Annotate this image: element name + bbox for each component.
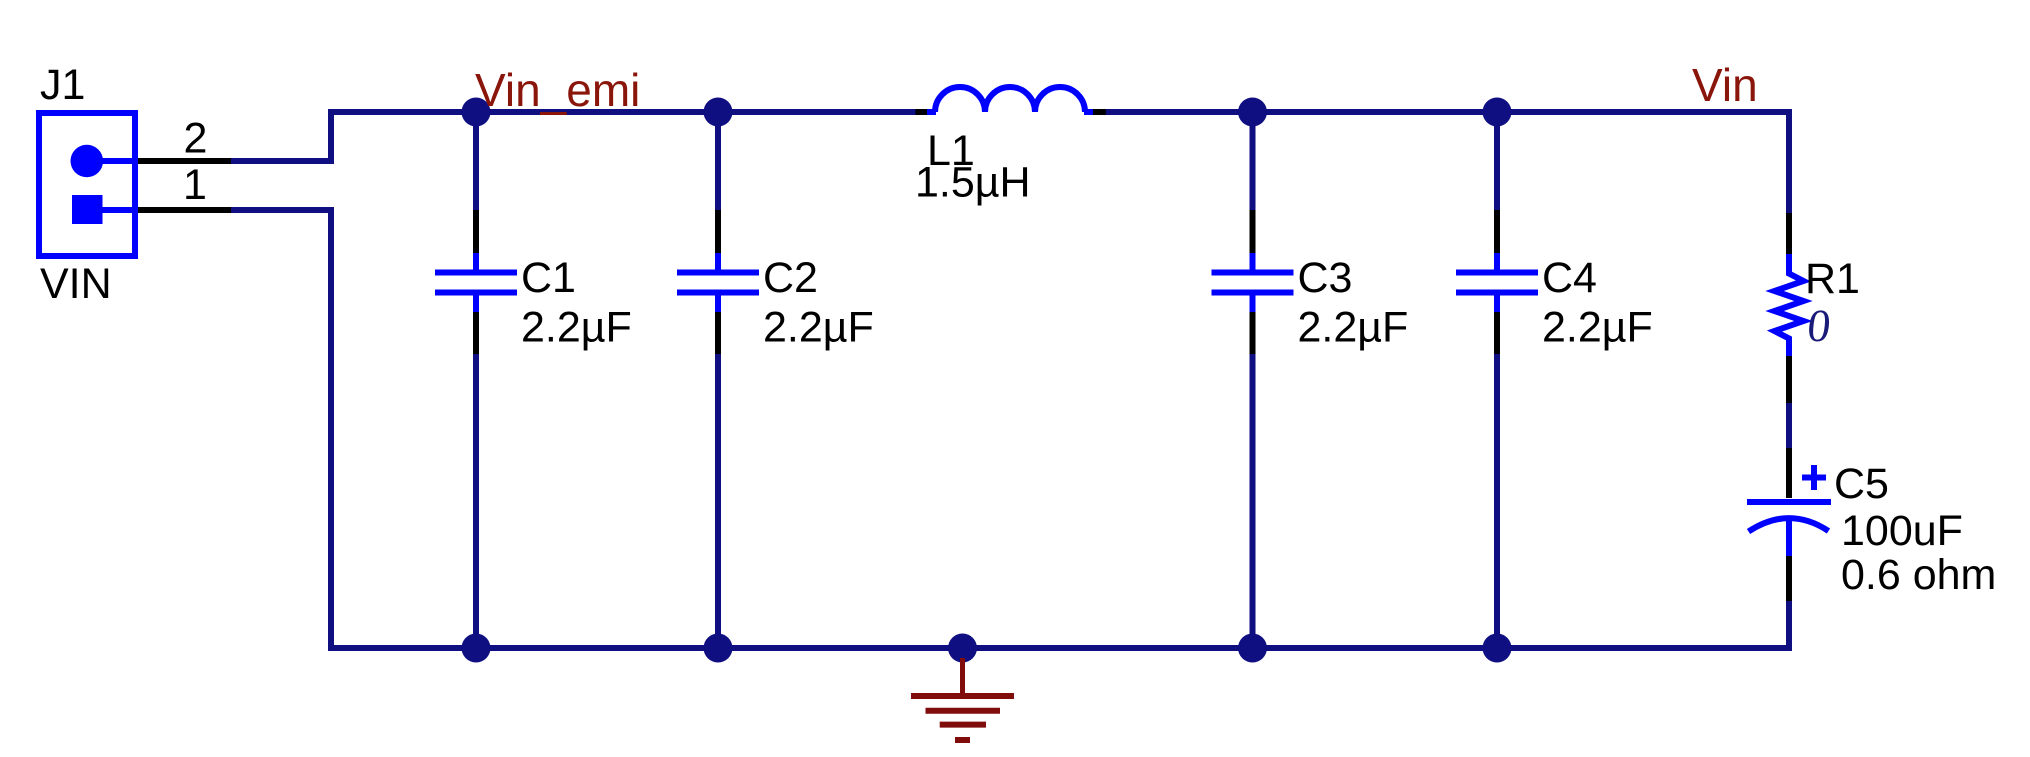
svg-text:2.2µF: 2.2µF bbox=[521, 304, 632, 352]
svg-text:C3: C3 bbox=[1298, 254, 1353, 302]
svg-text:1: 1 bbox=[183, 161, 207, 209]
svg-text:Vin_emi: Vin_emi bbox=[475, 64, 640, 116]
svg-text:1.5µH: 1.5µH bbox=[915, 159, 1031, 207]
svg-text:0: 0 bbox=[1805, 300, 1833, 351]
svg-text:2.2µF: 2.2µF bbox=[1542, 304, 1653, 352]
svg-text:Vin: Vin bbox=[1692, 59, 1758, 111]
svg-text:2: 2 bbox=[184, 115, 208, 163]
svg-text:0.6 ohm: 0.6 ohm bbox=[1841, 551, 1996, 599]
svg-text:C4: C4 bbox=[1542, 254, 1597, 302]
svg-text:2.2µF: 2.2µF bbox=[763, 304, 874, 352]
svg-text:100uF: 100uF bbox=[1841, 507, 1963, 555]
svg-text:VIN: VIN bbox=[40, 260, 112, 308]
svg-text:C1: C1 bbox=[521, 254, 576, 302]
svg-text:2.2µF: 2.2µF bbox=[1298, 304, 1409, 352]
svg-text:C2: C2 bbox=[763, 254, 818, 302]
svg-text:C5: C5 bbox=[1834, 460, 1889, 508]
svg-text:J1: J1 bbox=[40, 61, 85, 109]
svg-text:R1: R1 bbox=[1805, 255, 1860, 303]
